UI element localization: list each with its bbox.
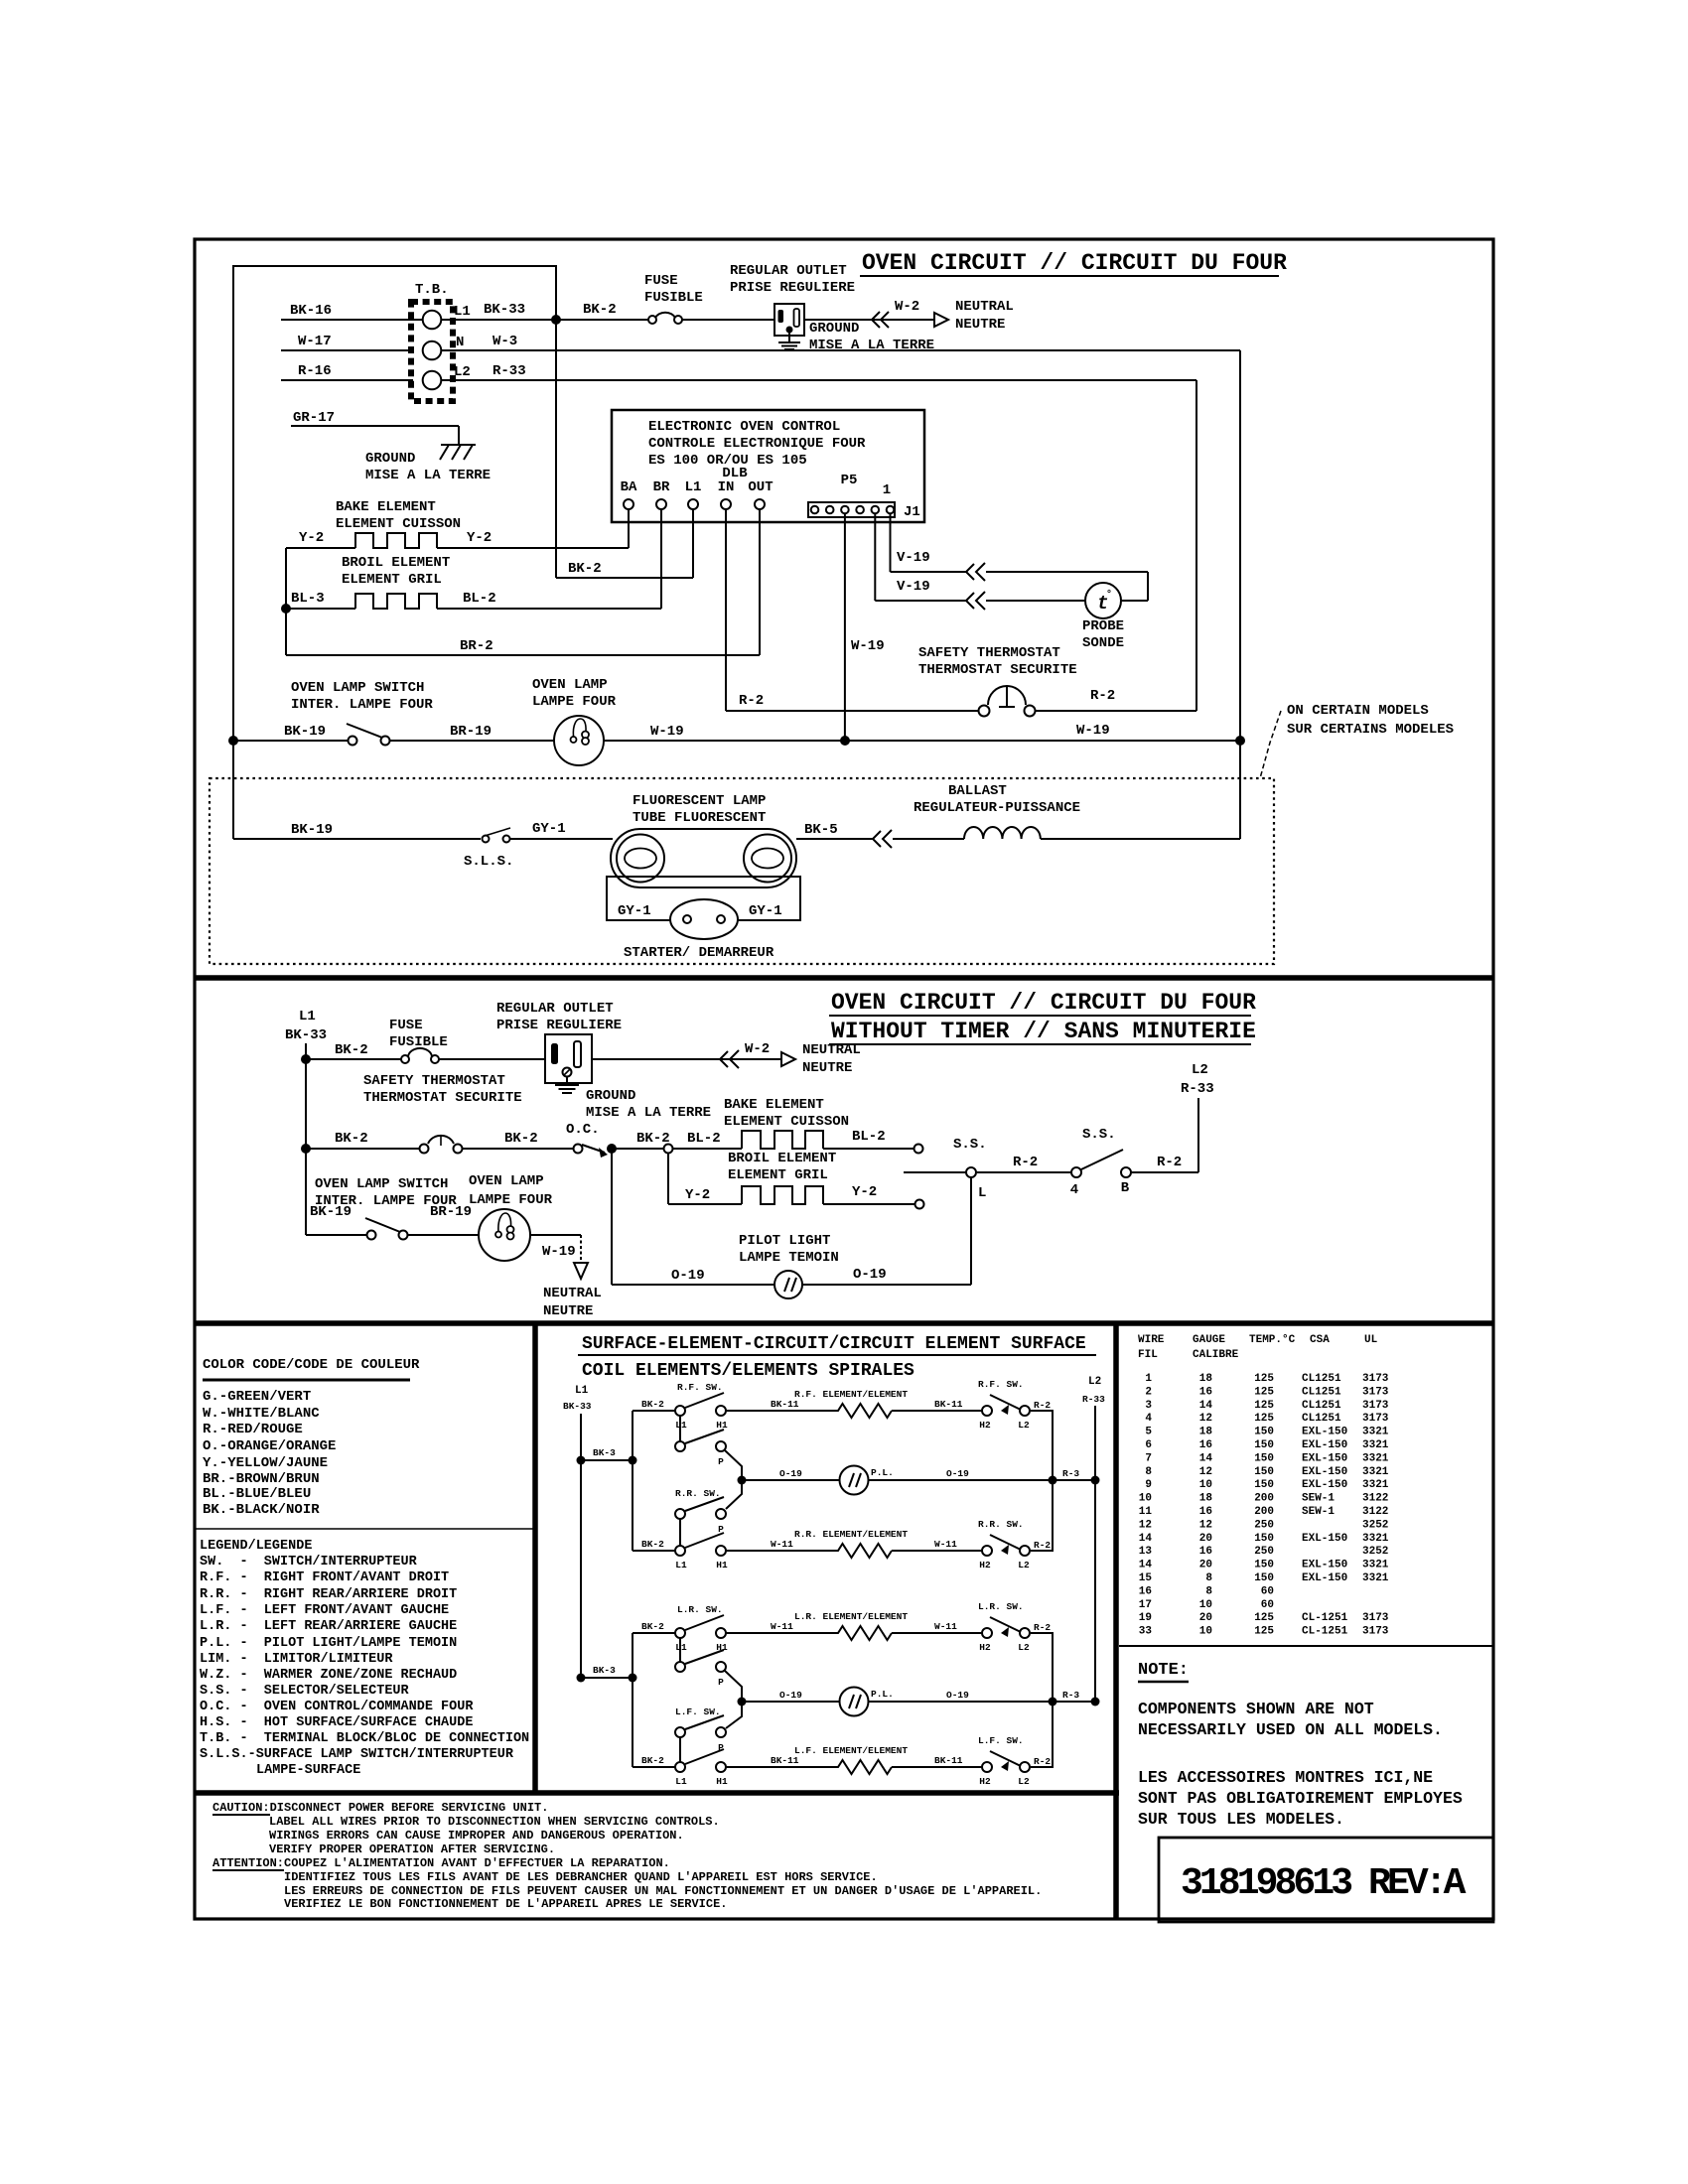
svg-text:T.B.: T.B. <box>415 282 449 298</box>
node OC junction <box>607 1144 617 1154</box>
svg-text:LAMPE FOUR: LAMPE FOUR <box>469 1192 553 1208</box>
svg-text:GROUND: GROUND <box>365 451 415 467</box>
svg-text:R-3: R-3 <box>1062 1690 1079 1701</box>
wire BK-2 from EOC L1 <box>556 509 693 578</box>
svg-text:W.-WHITE/BLANC: W.-WHITE/BLANC <box>203 1406 320 1422</box>
svg-text:BAKE ELEMENT: BAKE ELEMENT <box>336 499 436 515</box>
svg-text:BK-19: BK-19 <box>291 822 333 838</box>
oven lamp switch S4 <box>315 1176 457 1240</box>
wire BK-3 lower <box>577 1665 637 1683</box>
svg-text:GR-17: GR-17 <box>293 410 335 426</box>
svg-text:GROUND: GROUND <box>809 321 859 337</box>
svg-text:W-19: W-19 <box>851 638 885 654</box>
svg-text:W-3: W-3 <box>492 334 517 349</box>
dashed box on certain models <box>210 778 1274 964</box>
svg-text:18: 18 <box>1199 1373 1213 1385</box>
resistor L.F. element <box>794 1745 908 1774</box>
svg-text:R-3: R-3 <box>1062 1468 1079 1479</box>
title OVEN CIRCUIT section 1 <box>860 250 1287 276</box>
svg-text:L.R. SW.: L.R. SW. <box>978 1601 1024 1612</box>
svg-text:R-2: R-2 <box>739 693 764 709</box>
svg-text:ELEMENT GRIL: ELEMENT GRIL <box>342 572 442 588</box>
title surface element circuit <box>578 1334 1096 1381</box>
svg-text:J1: J1 <box>904 504 920 520</box>
svg-text:L: L <box>978 1185 986 1201</box>
svg-text:NEUTRE: NEUTRE <box>543 1303 593 1319</box>
svg-text:LABEL ALL WIRES PRIOR TO DISCO: LABEL ALL WIRES PRIOR TO DISCONNECTION W… <box>269 1815 720 1829</box>
node R-3 upper junction <box>1049 1476 1057 1485</box>
wire GR-17 <box>291 410 459 445</box>
fuse F2 <box>389 1018 448 1063</box>
wire BK-2 thermostat to OC <box>463 1131 573 1149</box>
svg-text:12: 12 <box>1199 1519 1212 1531</box>
svg-text:IDENTIFIEZ TOUS LES FILS AVANT: IDENTIFIEZ TOUS LES FILS AVANT DE LES DE… <box>284 1870 878 1884</box>
svg-text:3321: 3321 <box>1362 1466 1389 1478</box>
svg-text:250: 250 <box>1254 1546 1274 1558</box>
svg-text:EXL-150: EXL-150 <box>1302 1466 1347 1478</box>
svg-text:BR-2: BR-2 <box>460 638 493 654</box>
svg-text:BK-11: BK-11 <box>771 1755 799 1766</box>
wire BK-11 left RF <box>726 1399 834 1411</box>
svg-text:BK-2: BK-2 <box>335 1131 368 1147</box>
svg-text:PILOT LIGHT: PILOT LIGHT <box>739 1233 830 1249</box>
svg-text:H2: H2 <box>979 1776 991 1787</box>
svg-text:3321: 3321 <box>1362 1452 1389 1464</box>
wire loop node L1 left rail <box>233 266 556 839</box>
selector common S.S. <box>904 1137 987 1201</box>
svg-text:NECESSARILY USED ON ALL MODELS: NECESSARILY USED ON ALL MODELS. <box>1138 1720 1443 1739</box>
switch L.R. SW. main <box>675 1604 728 1653</box>
switch R.R. SW. right <box>978 1519 1051 1570</box>
svg-text:14: 14 <box>1139 1560 1153 1571</box>
wire W-3 <box>441 334 1240 350</box>
wire BL-3 vertical <box>285 548 287 655</box>
wire Y-2 from bake to BA <box>437 509 629 548</box>
wire O-19 left upper <box>742 1468 840 1480</box>
divider horizontal colorcode/legend <box>195 1528 535 1530</box>
svg-text:W-11: W-11 <box>934 1539 957 1550</box>
svg-text:CONTROLE ELECTRONIQUE FOUR: CONTROLE ELECTRONIQUE FOUR <box>648 436 866 452</box>
node lamp line left junction <box>228 736 238 746</box>
wire W-17 <box>281 334 413 350</box>
wire BK-2 OC to junction <box>612 1131 670 1149</box>
svg-text:T.B. - TERMINAL BLOCK/BLOC DE: T.B. - TERMINAL BLOCK/BLOC DE CONNECTION <box>200 1731 529 1746</box>
wire lamp line left <box>233 724 349 741</box>
svg-text:14: 14 <box>1199 1400 1213 1412</box>
svg-text:BK-2: BK-2 <box>568 561 602 577</box>
svg-text:L1: L1 <box>685 479 702 495</box>
broil element coil <box>342 555 450 609</box>
wire W-3 vertical right <box>1239 350 1241 741</box>
svg-text:150: 150 <box>1254 1479 1274 1491</box>
svg-text:W-19: W-19 <box>650 724 684 740</box>
svg-text:3321: 3321 <box>1362 1439 1389 1451</box>
svg-text:200: 200 <box>1254 1493 1274 1505</box>
svg-text:LES ACCESSOIRES MONTRES ICI,NE: LES ACCESSOIRES MONTRES ICI,NE <box>1138 1768 1433 1787</box>
svg-text:L2: L2 <box>1192 1062 1208 1078</box>
svg-text:Y-2: Y-2 <box>299 530 324 546</box>
svg-text:S.L.S.: S.L.S. <box>464 854 513 870</box>
safety thermostat S1 <box>918 645 1077 717</box>
svg-text:125: 125 <box>1254 1400 1274 1412</box>
svg-text:L2: L2 <box>454 364 471 380</box>
wire R-2 RF corner <box>1031 1411 1053 1480</box>
svg-text:10: 10 <box>1139 1493 1152 1505</box>
svg-text:BK-11: BK-11 <box>934 1399 963 1410</box>
oven lamp switch S2 <box>291 680 433 746</box>
svg-text:L.R. ELEMENT/ELEMENT: L.R. ELEMENT/ELEMENT <box>794 1611 908 1622</box>
wire R-2 LF corner <box>1031 1702 1053 1767</box>
connector L1 to pilot RF <box>679 1416 681 1441</box>
bake element coil <box>336 499 461 548</box>
svg-text:10: 10 <box>1199 1599 1212 1611</box>
svg-text:250: 250 <box>1254 1519 1274 1531</box>
resistor R.R. element <box>794 1529 908 1558</box>
wire W-11 right LR <box>892 1621 982 1633</box>
svg-text:L.F. SW.: L.F. SW. <box>675 1706 721 1717</box>
pin L1 <box>685 479 702 509</box>
svg-text:LEGEND/LEGENDE: LEGEND/LEGENDE <box>200 1539 312 1554</box>
svg-text:L.F. - LEFT FRONT/AVANT GAUCH: L.F. - LEFT FRONT/AVANT GAUCHE <box>200 1603 449 1618</box>
svg-text:150: 150 <box>1254 1533 1274 1545</box>
node L1 rail surface <box>563 1385 592 1678</box>
electronic oven control U1 box <box>612 410 924 522</box>
title OVEN CIRCUIT section 2 <box>829 990 1256 1044</box>
svg-text:16: 16 <box>1199 1439 1212 1451</box>
svg-text:20: 20 <box>1199 1560 1212 1571</box>
svg-text:R-2: R-2 <box>1034 1400 1051 1411</box>
svg-text:20: 20 <box>1199 1612 1212 1624</box>
resistor R.F. element <box>794 1389 908 1418</box>
svg-text:P: P <box>718 1456 724 1467</box>
node pilot junction lower <box>738 1698 747 1706</box>
svg-text:125: 125 <box>1254 1612 1274 1624</box>
divider vertical legend/surface box <box>532 1323 538 1793</box>
color code block <box>203 1357 420 1518</box>
wire W-19 from J1 pin3 <box>845 514 885 741</box>
node W-19 junction <box>840 736 850 746</box>
svg-text:NEUTRE: NEUTRE <box>802 1060 852 1076</box>
wire R-3 upper <box>1053 1468 1100 1485</box>
svg-text:R.F. ELEMENT/ELEMENT: R.F. ELEMENT/ELEMENT <box>794 1389 908 1400</box>
svg-text:TUBE FLUORESCENT: TUBE FLUORESCENT <box>633 810 766 826</box>
svg-text:PRISE REGULIERE: PRISE REGULIERE <box>496 1018 622 1033</box>
svg-text:BK-19: BK-19 <box>284 724 326 740</box>
svg-text:L2: L2 <box>1018 1560 1030 1570</box>
svg-text:COMPONENTS SHOWN ARE NOT: COMPONENTS SHOWN ARE NOT <box>1138 1700 1374 1718</box>
wire BK-19 lamp line section2 <box>306 1204 366 1235</box>
svg-text:BR-19: BR-19 <box>430 1204 472 1220</box>
regular outlet section2 <box>496 1001 622 1083</box>
svg-text:EXL-150: EXL-150 <box>1302 1572 1347 1584</box>
svg-text:EXL-150: EXL-150 <box>1302 1533 1347 1545</box>
pilot light P.L. lower <box>840 1688 894 1716</box>
svg-text:LAMPE TEMOIN: LAMPE TEMOIN <box>739 1250 839 1266</box>
oven lamp L1 <box>532 677 617 765</box>
svg-text:H2: H2 <box>979 1560 991 1570</box>
svg-text:BK-2: BK-2 <box>636 1131 670 1147</box>
svg-text:FUSIBLE: FUSIBLE <box>644 290 703 306</box>
svg-text:SONT PAS OBLIGATOIREMENT EMPLO: SONT PAS OBLIGATOIREMENT EMPLOYES <box>1138 1789 1463 1808</box>
svg-text:OVEN CIRCUIT // CIRCUIT DU FOU: OVEN CIRCUIT // CIRCUIT DU FOUR <box>862 250 1287 276</box>
wire BL-3 label <box>286 591 355 609</box>
svg-text:BROIL ELEMENT: BROIL ELEMENT <box>728 1151 836 1166</box>
svg-text:O-19: O-19 <box>946 1468 969 1479</box>
svg-text:EXL-150: EXL-150 <box>1302 1439 1347 1451</box>
node W-19 right junction <box>1235 736 1245 746</box>
svg-text:CL1251: CL1251 <box>1302 1413 1341 1425</box>
node pilot junction upper <box>738 1476 747 1485</box>
svg-text:R-2: R-2 <box>1013 1155 1038 1170</box>
svg-text:8: 8 <box>1205 1585 1212 1597</box>
svg-text:CAUTION:DISCONNECT POWER BEFOR: CAUTION:DISCONNECT POWER BEFORE SERVICIN… <box>212 1801 548 1815</box>
wire BK-11 right RF <box>892 1399 982 1411</box>
svg-text:L1: L1 <box>575 1385 589 1397</box>
svg-text:CL-1251: CL-1251 <box>1302 1612 1348 1624</box>
svg-text:W.Z. - WARMER ZONE/ZONE RECHA: W.Z. - WARMER ZONE/ZONE RECHAUD <box>200 1668 457 1683</box>
svg-text:LES ERREURS DE CONNECTION DE F: LES ERREURS DE CONNECTION DE FILS PEUVEN… <box>284 1884 1042 1898</box>
svg-text:200: 200 <box>1254 1506 1274 1518</box>
wire V-19 second from J1 pin5 <box>875 514 1085 610</box>
pin BR <box>653 479 670 509</box>
svg-text:OVEN LAMP SWITCH: OVEN LAMP SWITCH <box>291 680 424 696</box>
svg-text:Y-2: Y-2 <box>852 1184 877 1200</box>
svg-text:EXL-150: EXL-150 <box>1302 1560 1347 1571</box>
switch R.F. pilot contacts <box>675 1430 726 1467</box>
wire pilot diagonal upper <box>725 1450 742 1509</box>
svg-text:150: 150 <box>1254 1572 1274 1584</box>
svg-text:VERIFIEZ LE BON FONCTIONNEMENT: VERIFIEZ LE BON FONCTIONNEMENT DE L'APPA… <box>284 1897 727 1911</box>
svg-text:12: 12 <box>1139 1519 1152 1531</box>
svg-text:N: N <box>456 335 464 350</box>
svg-text:R-2: R-2 <box>1034 1540 1051 1551</box>
switch R.F. SW. main <box>675 1382 728 1431</box>
wire ballast feed vertical <box>1239 741 1241 839</box>
svg-text:150: 150 <box>1254 1439 1274 1451</box>
probe sensor <box>1082 583 1124 651</box>
wire R-2 to L2 <box>1131 1155 1198 1172</box>
connector L1 to pilot LR <box>679 1638 681 1662</box>
svg-text:3122: 3122 <box>1362 1506 1388 1518</box>
wire BK-33 <box>441 302 556 320</box>
switch L.F. pilot contacts <box>675 1706 726 1753</box>
svg-text:3321: 3321 <box>1362 1427 1389 1438</box>
wire O-19 left lower <box>742 1690 840 1702</box>
svg-text:LAMPE FOUR: LAMPE FOUR <box>532 694 617 710</box>
starter assembly <box>607 877 800 961</box>
svg-text:3252: 3252 <box>1362 1546 1388 1558</box>
svg-text:10: 10 <box>1199 1479 1212 1491</box>
svg-text:O-19: O-19 <box>779 1468 802 1479</box>
svg-text:W-11: W-11 <box>934 1621 957 1632</box>
svg-text:BALLAST: BALLAST <box>948 783 1007 799</box>
svg-text:THERMOSTAT SECURITE: THERMOSTAT SECURITE <box>363 1090 522 1106</box>
svg-text:L.R. SW.: L.R. SW. <box>677 1604 723 1615</box>
svg-text:OVEN LAMP SWITCH: OVEN LAMP SWITCH <box>315 1176 448 1192</box>
divider vertical surface/table box <box>1113 1323 1119 1919</box>
svg-text:OVEN CIRCUIT // CIRCUIT DU FOU: OVEN CIRCUIT // CIRCUIT DU FOUR <box>831 990 1256 1016</box>
part number box <box>1159 1838 1493 1922</box>
switch L.F. SW. right <box>978 1735 1051 1787</box>
svg-text:3252: 3252 <box>1362 1519 1388 1531</box>
svg-text:SONDE: SONDE <box>1082 635 1124 651</box>
svg-text:OVEN LAMP: OVEN LAMP <box>532 677 608 693</box>
svg-text:ELEMENT CUISSON: ELEMENT CUISSON <box>336 516 461 532</box>
wire W-19 lamp to right <box>604 723 1240 741</box>
switch R.R. SW. main <box>675 1533 728 1570</box>
switch L.R. pilot contacts <box>675 1650 726 1688</box>
svg-text:P.L.: P.L. <box>871 1467 894 1478</box>
wire R-3 lower <box>1053 1690 1100 1706</box>
svg-text:CL1251: CL1251 <box>1302 1400 1341 1412</box>
svg-text:R-2: R-2 <box>1157 1155 1182 1170</box>
svg-text:BAKE ELEMENT: BAKE ELEMENT <box>724 1097 824 1113</box>
wire BK-2 RR row <box>633 1539 675 1551</box>
border frame outer <box>195 239 1493 1919</box>
svg-text:OUT: OUT <box>748 479 773 495</box>
svg-text:R-33: R-33 <box>492 363 526 379</box>
svg-text:3173: 3173 <box>1362 1612 1389 1624</box>
wire BK-2 vertical lower unit <box>632 1633 633 1767</box>
wire pilot diagonal lower <box>725 1671 742 1728</box>
pin DLB OUT <box>748 479 773 509</box>
svg-text:O.-ORANGE/ORANGE: O.-ORANGE/ORANGE <box>203 1438 336 1454</box>
svg-text:P.L.: P.L. <box>871 1689 894 1700</box>
svg-text:BK-16: BK-16 <box>290 303 332 319</box>
wire Y-2 left of bake <box>286 530 355 548</box>
svg-text:STARTER/ DEMARREUR: STARTER/ DEMARREUR <box>624 945 774 961</box>
fluorescent lamp tube <box>611 793 796 887</box>
leader line on certain models <box>1260 703 1454 778</box>
switch L.R. SW. right <box>978 1601 1051 1653</box>
wire O-19 right lower <box>869 1690 1053 1702</box>
node L2 rail surface <box>1082 1376 1105 1702</box>
surface lamp switch S.L.S. <box>464 828 513 870</box>
svg-text:B: B <box>1121 1180 1130 1196</box>
svg-text:4: 4 <box>1070 1182 1078 1198</box>
svg-text:FUSE: FUSE <box>389 1018 423 1033</box>
wire BR-19 <box>389 724 554 741</box>
svg-text:L2: L2 <box>1018 1776 1030 1787</box>
terminal block T.B. <box>411 282 471 401</box>
fuse F1 <box>644 273 703 324</box>
svg-text:H2: H2 <box>979 1420 991 1431</box>
svg-text:BR.-BROWN/BRUN: BR.-BROWN/BRUN <box>203 1471 320 1487</box>
svg-text:W-11: W-11 <box>771 1539 793 1550</box>
svg-text:COIL ELEMENTS/ELEMENTS SPIRALE: COIL ELEMENTS/ELEMENTS SPIRALES <box>582 1361 914 1381</box>
svg-text:THERMOSTAT SECURITE: THERMOSTAT SECURITE <box>918 662 1077 678</box>
svg-text:150: 150 <box>1254 1560 1274 1571</box>
svg-text:14: 14 <box>1139 1533 1153 1545</box>
connector pilot to main RR <box>679 1519 681 1546</box>
svg-text:BK-2: BK-2 <box>335 1042 368 1058</box>
wire W-11 right RR <box>892 1539 982 1551</box>
wire fuse to outlet section2 <box>439 1058 545 1060</box>
svg-text:W-2: W-2 <box>895 299 919 315</box>
svg-text:R.-RED/ROUGE: R.-RED/ROUGE <box>203 1422 303 1437</box>
chassis ground symbol <box>365 445 491 483</box>
svg-text:O-19: O-19 <box>853 1267 887 1283</box>
svg-text:CSA: CSA <box>1310 1334 1330 1346</box>
svg-text:P.L. - PILOT LIGHT/LAMPE TEMO: P.L. - PILOT LIGHT/LAMPE TEMOIN <box>200 1636 457 1651</box>
svg-text:S.S.: S.S. <box>953 1137 987 1153</box>
svg-text:16: 16 <box>1199 1506 1212 1518</box>
svg-text:9: 9 <box>1145 1479 1152 1491</box>
wire table header <box>1138 1334 1378 1361</box>
svg-text:BK.-BLACK/NOIR: BK.-BLACK/NOIR <box>203 1502 320 1518</box>
svg-text:ELEMENT GRIL: ELEMENT GRIL <box>728 1167 828 1183</box>
svg-text:CL1251: CL1251 <box>1302 1373 1341 1385</box>
svg-text:W-19: W-19 <box>1076 723 1110 739</box>
svg-text:R-16: R-16 <box>298 363 332 379</box>
pilot light P.L. section2 <box>739 1233 839 1298</box>
svg-text:O-19: O-19 <box>779 1690 802 1701</box>
svg-text:3173: 3173 <box>1362 1373 1389 1385</box>
svg-text:L1: L1 <box>675 1560 687 1570</box>
svg-text:W-2: W-2 <box>745 1041 770 1057</box>
svg-text:VERIFY PROPER OPERATION AFTER: VERIFY PROPER OPERATION AFTER SERVICING. <box>269 1843 555 1856</box>
svg-text:12: 12 <box>1199 1413 1212 1425</box>
wire BR-2 from OUT pin <box>286 509 760 655</box>
switch R.F. SW. right <box>978 1379 1051 1431</box>
svg-text:BL-2: BL-2 <box>463 591 496 607</box>
svg-text:BL-2: BL-2 <box>687 1131 721 1147</box>
svg-text:BK-2: BK-2 <box>504 1131 538 1147</box>
node L1 rail section2 <box>285 1009 327 1235</box>
svg-text:L2: L2 <box>1018 1642 1030 1653</box>
svg-text:3173: 3173 <box>1362 1413 1389 1425</box>
svg-text:GROUND: GROUND <box>586 1088 635 1104</box>
svg-text:16: 16 <box>1199 1546 1212 1558</box>
svg-text:GY-1: GY-1 <box>532 821 566 837</box>
svg-text:G.-GREEN/VERT: G.-GREEN/VERT <box>203 1389 311 1405</box>
node L2 rail section2 <box>1181 1062 1214 1172</box>
safety thermostat S3 <box>363 1073 522 1154</box>
svg-text:NOTE:: NOTE: <box>1138 1661 1189 1680</box>
svg-text:BR: BR <box>653 479 670 495</box>
svg-text:18: 18 <box>1199 1493 1213 1505</box>
svg-text:CL1251: CL1251 <box>1302 1386 1341 1398</box>
svg-text:L.R. - LEFT REAR/ARRIERE GAUC: L.R. - LEFT REAR/ARRIERE GAUCHE <box>200 1619 457 1634</box>
svg-text:BK-2: BK-2 <box>583 302 617 318</box>
wire BK-19 SLS line <box>233 822 481 839</box>
svg-text:FUSE: FUSE <box>644 273 678 289</box>
svg-text:PRISE REGULIERE: PRISE REGULIERE <box>730 280 855 296</box>
pilot light P.L. upper <box>840 1466 894 1495</box>
wire BK-2 LR row <box>633 1621 675 1633</box>
svg-text:BK-3: BK-3 <box>593 1665 616 1676</box>
svg-text:H1: H1 <box>716 1560 728 1570</box>
svg-text:BK-33: BK-33 <box>563 1401 592 1412</box>
legend block <box>200 1539 529 1778</box>
svg-text:WITHOUT TIMER // SANS MINUTERI: WITHOUT TIMER // SANS MINUTERIE <box>831 1019 1256 1044</box>
wire BK-11 right LF <box>892 1755 982 1767</box>
caution block <box>212 1801 1042 1911</box>
svg-text:3173: 3173 <box>1362 1386 1389 1398</box>
broil element coil section2 <box>728 1151 836 1204</box>
svg-text:60: 60 <box>1261 1599 1274 1611</box>
wire W-2 neutral section2 <box>592 1041 861 1076</box>
ground of outlet section2 <box>555 1076 711 1121</box>
svg-text:NEUTRAL: NEUTRAL <box>802 1042 861 1058</box>
bake element coil section2 <box>724 1097 849 1149</box>
svg-text:R-2: R-2 <box>1034 1756 1051 1767</box>
svg-text:S.S.: S.S. <box>1082 1127 1116 1143</box>
wire R-2 LR corner <box>1031 1633 1053 1702</box>
svg-text:SEW-1: SEW-1 <box>1302 1493 1335 1505</box>
svg-text:11: 11 <box>1139 1506 1153 1518</box>
oven lamp L2 <box>469 1173 553 1261</box>
